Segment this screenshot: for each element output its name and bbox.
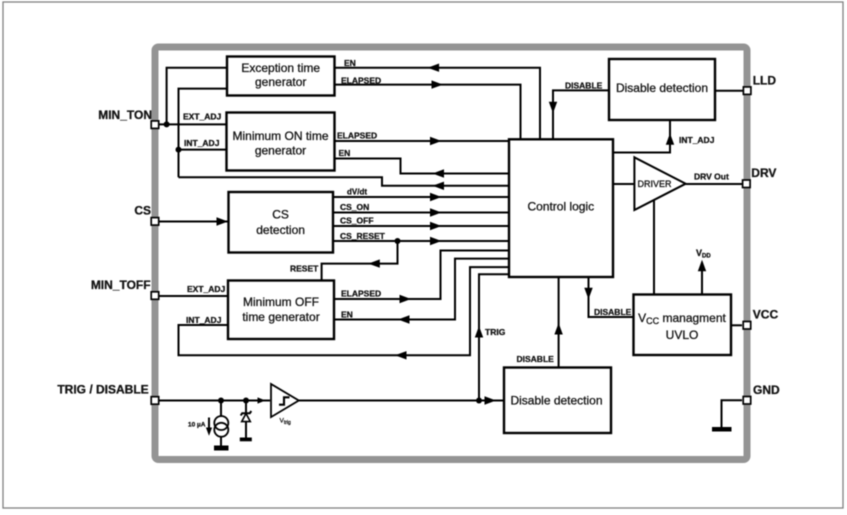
pin LLD bbox=[743, 74, 776, 95]
svg-text:MIN_TON: MIN_TON bbox=[98, 108, 152, 122]
wire dV/dt bbox=[333, 193, 509, 201]
svg-text:Disable detection: Disable detection bbox=[510, 394, 602, 408]
svg-text:DISABLE: DISABLE bbox=[594, 307, 632, 317]
block disable detection top bbox=[609, 59, 715, 120]
svg-text:EN: EN bbox=[341, 309, 353, 319]
svg-text:generator: generator bbox=[255, 75, 306, 89]
svg-text:INT_ADJ: INT_ADJ bbox=[186, 315, 222, 325]
wire INT_ADJ wrap to control logic bbox=[179, 177, 510, 190]
block CS detection bbox=[229, 192, 334, 253]
wire INT_ADJ min OFF wrap bbox=[179, 267, 510, 359]
block Vcc management UVLO bbox=[634, 295, 732, 356]
node current source junction bbox=[218, 398, 224, 404]
wire VDD bbox=[698, 260, 706, 295]
svg-text:dV/dt: dV/dt bbox=[347, 188, 367, 197]
wire DISABLE bottom detection to control logic bbox=[554, 277, 562, 367]
node MIN_TON junction bbox=[164, 121, 170, 127]
svg-text:DRIVER: DRIVER bbox=[638, 179, 673, 189]
svg-text:RESET: RESET bbox=[290, 264, 319, 274]
svg-text:CS_RESET: CS_RESET bbox=[340, 231, 386, 241]
wire INT_ADJ control logic to disable detection bbox=[613, 120, 674, 153]
svg-text:generator: generator bbox=[255, 144, 306, 158]
ground zener bbox=[240, 438, 252, 442]
node INT_ADJ junction bbox=[176, 147, 182, 153]
svg-text:Minimum OFF: Minimum OFF bbox=[243, 295, 319, 309]
wire CS input bbox=[159, 217, 228, 225]
op-amp trigger schmitt comparator bbox=[271, 384, 299, 426]
wire ELAPSED exception bbox=[334, 80, 521, 139]
node TRIG junction bbox=[476, 398, 482, 404]
block minimum ON time generator bbox=[227, 113, 335, 171]
wire MIN_TON to exception generator bbox=[167, 68, 228, 125]
wire ELAPSED min OFF bbox=[334, 251, 509, 304]
svg-text:UVLO: UVLO bbox=[666, 328, 699, 342]
wire MIN_TON EXT_ADJ bbox=[159, 123, 228, 125]
wire current source branch bbox=[220, 401, 222, 446]
wire TRIG branch to control logic bbox=[475, 274, 509, 400]
wire DISABLE control logic to Vcc management bbox=[584, 277, 634, 317]
pin GND bbox=[743, 383, 780, 404]
pin VCC bbox=[743, 307, 778, 329]
svg-text:MIN_TOFF: MIN_TOFF bbox=[91, 278, 151, 292]
wire schmitt output to disable detection bbox=[299, 396, 504, 404]
svg-text:Control logic: Control logic bbox=[527, 200, 594, 214]
svg-text:CS: CS bbox=[134, 204, 151, 218]
ground current source bbox=[214, 446, 229, 451]
svg-text:INT_ADJ: INT_ADJ bbox=[679, 135, 715, 145]
wire CS_RESET bbox=[333, 237, 509, 245]
svg-text:ELAPSED: ELAPSED bbox=[337, 131, 377, 141]
node zener junction bbox=[243, 398, 249, 404]
svg-text:EXT_ADJ: EXT_ADJ bbox=[183, 112, 222, 122]
wire control logic to driver bbox=[613, 183, 635, 185]
svg-text:DRV: DRV bbox=[751, 166, 776, 180]
ground GND pin bbox=[712, 427, 732, 432]
wire EN exception bbox=[334, 64, 540, 140]
svg-text:EXT_ADJ: EXT_ADJ bbox=[187, 284, 226, 294]
svg-text:DISABLE: DISABLE bbox=[517, 354, 555, 364]
svg-text:DRV Out: DRV Out bbox=[694, 172, 729, 182]
svg-text:TRIG / DISABLE: TRIG / DISABLE bbox=[57, 383, 148, 397]
wire EN min ON bbox=[334, 159, 509, 178]
pin MIN_TON bbox=[98, 108, 158, 128]
wire RESET to min OFF generator bbox=[322, 241, 398, 281]
block minimum OFF time generator bbox=[228, 281, 334, 340]
svg-text:CS_ON: CS_ON bbox=[340, 202, 369, 212]
svg-text:time generator: time generator bbox=[242, 310, 319, 324]
svg-text:10 µA: 10 µA bbox=[188, 422, 206, 429]
svg-text:VCC: VCC bbox=[753, 307, 779, 321]
svg-text:Disable detection: Disable detection bbox=[616, 81, 708, 95]
pin TRIG / DISABLE bbox=[57, 383, 158, 405]
current source I1 10uA bbox=[214, 416, 228, 437]
wire zener branch bbox=[245, 401, 247, 438]
wire MIN_TOFF EXT_ADJ bbox=[159, 295, 229, 297]
wire CS_OFF bbox=[333, 222, 509, 230]
svg-text:EN: EN bbox=[339, 148, 351, 158]
pin MIN_TOFF bbox=[91, 278, 159, 299]
block control logic U1 bbox=[509, 139, 613, 277]
svg-text:LLD: LLD bbox=[753, 74, 777, 88]
wire VCC bbox=[731, 324, 742, 326]
node CS_RESET junction bbox=[395, 238, 401, 244]
wire LLD bbox=[715, 90, 743, 92]
IC boundary (thick gray border) bbox=[155, 47, 747, 460]
svg-text:INT_ADJ: INT_ADJ bbox=[184, 138, 220, 148]
wire GND bbox=[722, 400, 743, 427]
wire INT_ADJ min ON bbox=[179, 149, 229, 151]
wire TRIG DISABLE main bbox=[159, 397, 270, 403]
svg-text:DISABLE: DISABLE bbox=[565, 81, 603, 91]
svg-text:detection: detection bbox=[256, 223, 305, 237]
wire DISABLE top detection to control logic bbox=[549, 90, 609, 139]
svg-text:EN: EN bbox=[344, 58, 356, 68]
svg-text:TRIG: TRIG bbox=[485, 327, 506, 337]
svg-text:ELAPSED: ELAPSED bbox=[341, 76, 381, 86]
pin CS bbox=[134, 204, 158, 226]
diode D1 zener bbox=[241, 411, 252, 422]
wire EN min OFF bbox=[334, 259, 509, 324]
svg-text:ELAPSED: ELAPSED bbox=[341, 289, 381, 299]
wire exception generator lower left feed bbox=[179, 89, 229, 178]
svg-text:Exception time: Exception time bbox=[241, 61, 320, 75]
pin DRV bbox=[743, 166, 777, 188]
svg-text:GND: GND bbox=[753, 383, 780, 397]
wire ELAPSED min ON bbox=[334, 137, 509, 145]
op-amp DRIVER buffer bbox=[634, 157, 685, 210]
svg-text:Minimum ON time: Minimum ON time bbox=[232, 129, 328, 143]
arrow 10uA direction bbox=[206, 418, 212, 436]
wire CS_ON bbox=[333, 208, 509, 216]
svg-text:CS: CS bbox=[272, 208, 289, 222]
svg-text:CS_OFF: CS_OFF bbox=[340, 216, 374, 226]
wire DRV Out bbox=[686, 183, 742, 185]
block exception time generator bbox=[227, 57, 335, 96]
block disable detection bottom bbox=[504, 368, 611, 434]
wire driver supply to Vcc management bbox=[653, 200, 655, 296]
